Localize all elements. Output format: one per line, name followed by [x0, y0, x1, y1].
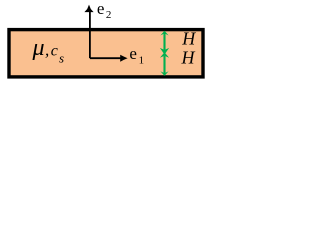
- svg-text:1: 1: [139, 54, 145, 66]
- svg-text:H: H: [181, 29, 196, 49]
- svg-text:s: s: [59, 51, 64, 66]
- svg-text:,: ,: [45, 40, 49, 59]
- svg-text:e: e: [129, 44, 137, 63]
- svg-text:H: H: [181, 47, 196, 67]
- svg-text:2: 2: [106, 9, 112, 21]
- svg-text:μ: μ: [32, 35, 45, 61]
- svg-text:e: e: [97, 0, 105, 18]
- svg-text:c: c: [51, 42, 58, 59]
